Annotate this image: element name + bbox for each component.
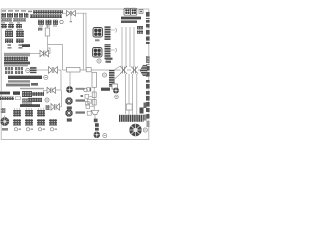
wire riser r1 [121, 27, 123, 67]
tap 1 [89, 95, 93, 97]
text N4 [31, 83, 38, 86]
header text LM [3, 58, 5, 60]
wire bar1 to X1 [62, 12, 67, 14]
left small block [1, 108, 6, 113]
outline P4 [15, 97, 20, 100]
box X5b [46, 105, 50, 110]
text column 2 [105, 44, 111, 60]
text column 1 [105, 26, 111, 40]
bottom striped connector [119, 115, 144, 122]
wire H to X3 [37, 69, 49, 71]
text bar N3 [6, 84, 30, 87]
block R [28, 98, 42, 102]
circle bottom [103, 134, 107, 138]
circle T1 [97, 59, 101, 63]
wire d2 lower [128, 110, 130, 115]
title text bar TR2 [121, 20, 137, 23]
wire riser r3 [129, 27, 131, 67]
callout wire 2 [111, 49, 116, 51]
striped box K [109, 70, 115, 87]
bottom row A blocks [13, 110, 45, 117]
wedge connector W1 [140, 65, 147, 76]
wire drop d1 [125, 74, 127, 114]
wire S1 to S2 [127, 69, 131, 71]
module icon pair 2 [93, 48, 103, 58]
bottom gear grommet [94, 132, 101, 139]
wire S2 to wedge [138, 69, 143, 71]
big gear grommet [129, 124, 141, 136]
scribble under gear [2, 128, 8, 131]
box L [112, 84, 118, 89]
relay box G [4, 53, 30, 56]
chain lower boxes [95, 123, 99, 127]
box on d2 [126, 104, 132, 110]
grommet L [113, 88, 119, 94]
inline connector I2 [86, 68, 91, 72]
label under module 1 [95, 39, 100, 41]
inline connector I1 [67, 67, 81, 72]
tick labels under row D [39, 26, 57, 27]
stub under X1 [70, 16, 72, 20]
right column at bus [146, 64, 150, 77]
splice S2 [131, 67, 138, 74]
wire X5 to riser [60, 106, 62, 108]
vertical connector F [45, 28, 50, 36]
item under row3 [67, 118, 72, 121]
connector row A (top-left row1) [1, 13, 29, 18]
tap 3 [90, 106, 95, 108]
ticks above row A [15, 108, 44, 110]
marks row y88 [84, 88, 110, 92]
terminal circle N [44, 75, 48, 79]
wire X3 to drop [58, 70, 62, 90]
callout wire 1 [111, 29, 116, 31]
wire F to riser [48, 45, 63, 71]
vertical connector J [92, 72, 97, 87]
wire riser r2 [125, 27, 127, 67]
wire corner to X4 [56, 89, 61, 91]
fuse grid right [15, 67, 23, 74]
wire G to X2 [30, 53, 40, 55]
fuse grid pair 1 [5, 31, 24, 38]
riser X4-X5 [61, 90, 63, 107]
wire parallel drop [82, 13, 84, 70]
bar P3 [0, 97, 14, 100]
block P5 rows [22, 91, 32, 107]
fuse grid left [5, 67, 13, 74]
wedge W2 [140, 108, 144, 114]
text T3 [106, 61, 112, 63]
label 14 [28, 11, 32, 13]
right column lower segments [146, 80, 150, 127]
connector row D [38, 20, 58, 25]
terminal circle LM [26, 68, 30, 72]
blob under funnel [94, 115, 96, 119]
main bus [63, 69, 121, 71]
labels under [8, 44, 23, 48]
grommet chain row1 [66, 86, 91, 93]
tap 2 box [86, 101, 90, 105]
appendage [144, 115, 148, 121]
grommet chain row3 [65, 109, 91, 117]
inline connector X1 (top bowtie) [67, 11, 76, 17]
pin-face icon double square [124, 8, 137, 15]
wire F down [47, 25, 49, 28]
wire drop d4 [136, 74, 138, 115]
long connector bar 2 [30, 14, 62, 18]
stub to right column [144, 103, 147, 109]
relay box G pins [4, 57, 28, 62]
title bar N [8, 76, 42, 79]
tick labels [2, 22, 20, 23]
small icon [139, 10, 143, 14]
inline connector X3 [49, 67, 58, 74]
connector row C (top-left row3) [1, 24, 22, 28]
tap 1 box [85, 94, 89, 98]
text SS [28, 92, 44, 96]
bracket 2 [116, 48, 117, 52]
title text bar TR1 [121, 17, 141, 20]
circle R2 [45, 98, 49, 102]
text bar P1 [0, 92, 10, 95]
drop to grommet chain [69, 72, 71, 86]
branch diagonal to L [115, 74, 121, 84]
ladder wire [93, 87, 95, 110]
wire X1 to corner [76, 13, 87, 70]
blob P2 [13, 91, 20, 94]
right edge connector column upper [146, 12, 150, 44]
wire X4 left [44, 90, 48, 95]
text bar Q [20, 104, 40, 107]
terminal circle D [60, 20, 63, 23]
wire riser r4 [133, 27, 135, 67]
funnel [91, 110, 98, 114]
fuse grid pair 2 [5, 39, 24, 43]
ground circles under row B [14, 128, 53, 131]
inline connector X2 (left bowtie) [40, 50, 49, 56]
small block E [38, 28, 43, 31]
right column mid segment [146, 56, 150, 63]
label bar [22, 44, 30, 47]
title bar G [4, 62, 30, 65]
tick labels above [6, 28, 23, 31]
splice S1 [120, 66, 127, 74]
component H on bus [30, 67, 37, 73]
label row top-left [2, 10, 26, 11]
circle J2 [102, 73, 106, 77]
bracket 1 [116, 28, 117, 32]
inline connector X5 [51, 104, 60, 111]
circle L2 [115, 95, 119, 99]
item under row2 [67, 106, 72, 109]
wire drop d3 [132, 74, 134, 115]
module icon pair 1 [93, 28, 103, 38]
circle BR [143, 128, 147, 132]
wire X2 stub [48, 48, 50, 54]
title bar M1 [4, 65, 28, 67]
bottom row B blocks [13, 119, 57, 125]
thin label row [20, 88, 44, 90]
connector row B (top-left row2) [1, 18, 26, 21]
diagonal K to splice [115, 66, 121, 70]
text T2 [106, 58, 113, 60]
text bar N2 [8, 80, 30, 82]
left gear grommet [0, 116, 9, 126]
inline connector X4 [47, 87, 56, 93]
grommet chain row2 [65, 97, 91, 105]
long connector bar 1 [33, 10, 63, 14]
tap 2 [89, 102, 92, 104]
border frame [1, 9, 149, 140]
wire drop d2 [128, 74, 130, 104]
small blocks right [137, 26, 143, 34]
harness ladder top boxes [92, 92, 96, 98]
